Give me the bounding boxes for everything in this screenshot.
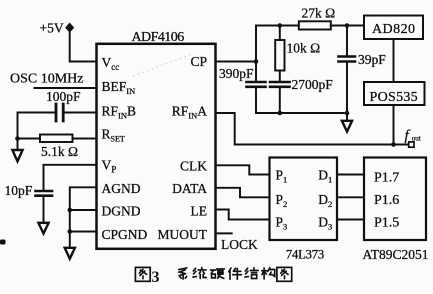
svg-text:CP: CP	[190, 54, 207, 69]
svg-text:10k Ω: 10k Ω	[287, 41, 321, 56]
svg-text:out: out	[412, 135, 421, 143]
svg-text:LOCK: LOCK	[221, 237, 258, 252]
svg-text:AD820: AD820	[372, 22, 415, 37]
svg-text:100pF: 100pF	[46, 89, 81, 104]
svg-text:5.1k Ω: 5.1k Ω	[41, 144, 78, 159]
svg-text:390pF: 390pF	[219, 66, 254, 81]
svg-text:Vcc: Vcc	[102, 55, 120, 72]
svg-text:P2: P2	[276, 192, 288, 209]
svg-text:P1.6: P1.6	[374, 193, 399, 208]
svg-text:D1: D1	[318, 168, 332, 185]
svg-text:39pF: 39pF	[358, 52, 386, 67]
svg-text:OSC 10MHz: OSC 10MHz	[10, 72, 84, 87]
svg-text:3: 3	[152, 269, 160, 286]
svg-text:DGND: DGND	[102, 204, 141, 219]
svg-text:2700pF: 2700pF	[292, 77, 334, 92]
svg-text:P3: P3	[276, 215, 288, 232]
svg-text:10pF: 10pF	[5, 183, 33, 198]
svg-text:VP: VP	[102, 158, 117, 175]
svg-text:LE: LE	[191, 204, 208, 219]
svg-text:27k Ω: 27k Ω	[302, 6, 336, 21]
svg-text:ADF4106: ADF4106	[132, 30, 185, 45]
svg-text:P1.7: P1.7	[374, 171, 399, 186]
svg-text:CPGND: CPGND	[102, 227, 148, 242]
svg-text:D3: D3	[318, 215, 332, 232]
svg-text:MUOUT: MUOUT	[158, 227, 208, 242]
svg-text:RSET: RSET	[102, 127, 125, 144]
svg-text:+5V: +5V	[40, 21, 64, 36]
svg-text:P1: P1	[276, 168, 288, 185]
svg-text:POS535: POS535	[370, 90, 418, 105]
svg-text:RFINA: RFINA	[172, 104, 208, 121]
svg-text:P1.5: P1.5	[374, 216, 399, 231]
svg-text:AGND: AGND	[102, 181, 141, 196]
svg-text:CLK: CLK	[180, 159, 207, 174]
svg-text:RFINB: RFINB	[102, 104, 137, 121]
svg-text:D2: D2	[318, 192, 332, 209]
svg-text:74L373: 74L373	[286, 247, 324, 262]
svg-text:BEFIN: BEFIN	[102, 79, 136, 96]
svg-text:AT89C2051: AT89C2051	[363, 247, 429, 262]
svg-text:DATA: DATA	[172, 181, 207, 196]
